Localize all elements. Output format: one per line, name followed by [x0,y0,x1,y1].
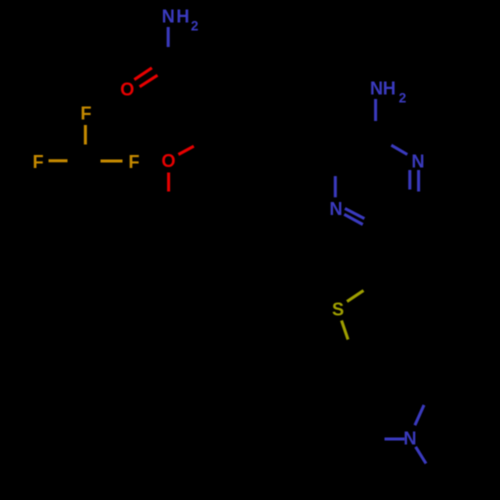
amino group NH2 label on pyrazine [370,79,406,106]
svg-text:N: N [370,79,383,99]
wire S-C5 bond half [342,321,349,340]
wire N-CH3 upper bond half [415,405,424,425]
svg-text:N: N [162,6,175,26]
svg-text:F: F [129,152,140,172]
wire O-CH2 bond half [167,173,170,192]
wire O-aryl bond half [178,146,193,154]
wire N1=C6 double bond main line [417,170,420,192]
svg-text:N: N [404,429,417,449]
wire C=O double bond line 2 [140,75,158,87]
svg-text:O: O [120,80,134,100]
wire C-F top bond half [84,125,87,145]
svg-text:F: F [81,104,92,124]
wire N-CH3 lower bond half [416,447,426,464]
amide group NH2 label [162,6,199,33]
svg-text:H: H [176,6,189,26]
svg-text:H: H [383,79,396,99]
wire C3-N4 bond half [334,176,337,197]
svg-text:O: O [161,151,175,171]
svg-text:S: S [332,300,344,320]
svg-text:F: F [33,152,44,172]
wire N4=C5 double bond inner line [345,208,365,218]
wire N4=C5 double bond main line [344,214,363,224]
svg-text:N: N [330,199,343,219]
wire C=O double bond line 1 [134,68,152,80]
wire C2-N1 bond half [391,145,407,154]
wire amino N-C bond half [374,99,377,121]
svg-text:2: 2 [191,18,199,33]
wire S-C2 bond half [347,291,364,302]
wire C-F right bond half [101,160,123,163]
wire N-CH2 bond half [385,438,405,441]
wire N1=C6 double bond inner line [408,170,411,190]
wire C-F left bond half [49,159,68,162]
svg-text:2: 2 [399,90,407,105]
svg-text:N: N [412,152,425,172]
wire amide N-C bond half [167,27,170,47]
